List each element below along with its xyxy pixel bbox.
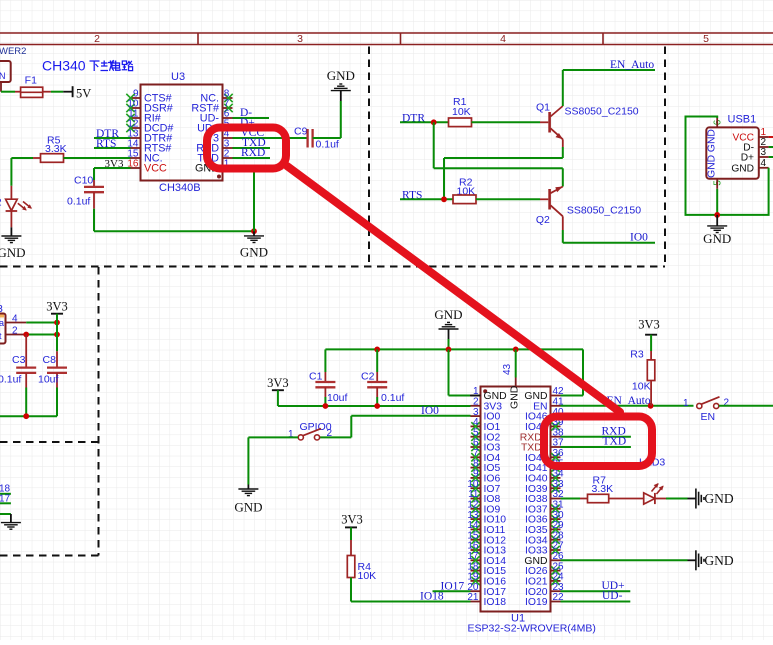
U1 pin 30 (IO36) xyxy=(551,518,561,520)
wire UD+ from U1.23 xyxy=(561,590,631,592)
wire TXD from U3.3 xyxy=(233,147,271,149)
svg-text:C3: C3 xyxy=(12,354,26,366)
svg-text:3V3: 3V3 xyxy=(341,513,363,527)
svg-text:GND: GND xyxy=(509,385,521,409)
annotation: red rounded box over U3 TXD/RXD pins xyxy=(207,128,286,169)
wire bus to U1 pin42 xyxy=(582,349,584,395)
svg-text:C9: C9 xyxy=(294,126,308,138)
U1 pin 11 (IO8) xyxy=(471,498,481,500)
USB1 pin 2 (D-) xyxy=(759,146,769,148)
svg-text:5: 5 xyxy=(703,33,709,45)
svg-text:4: 4 xyxy=(500,33,506,45)
ground above C9 xyxy=(340,91,342,101)
svg-text:3.3K: 3.3K xyxy=(592,483,614,495)
U1 pin 42 (GND) xyxy=(551,395,561,397)
U1 pin 5 (IO2) xyxy=(471,436,481,438)
wire UD- from U1.22 xyxy=(561,601,631,603)
svg-text:EN_Auto: EN_Auto xyxy=(610,59,654,71)
U1 pin 19 (IO16) xyxy=(471,580,481,582)
resistor R4 10K xyxy=(350,540,352,556)
wire RTS node xyxy=(400,198,453,200)
svg-text:2: 2 xyxy=(327,428,333,439)
power port 3V3 (left of C1) xyxy=(272,389,284,391)
svg-text:0.1uf: 0.1uf xyxy=(381,392,404,404)
wire xyxy=(51,91,63,93)
U1 pin 28 (IO34) xyxy=(551,539,561,541)
svg-text:5V: 5V xyxy=(76,86,91,100)
svg-text:UD-: UD- xyxy=(602,590,623,602)
junctions xyxy=(23,332,29,338)
annotation: red connecting line xyxy=(287,166,620,412)
svg-text:F1: F1 xyxy=(25,74,37,86)
U1 pin 39 (IO45) xyxy=(551,425,561,427)
U1 pin 6 (IO3) xyxy=(471,446,481,448)
wire EN to edge xyxy=(719,405,773,407)
wire C9 to GND xyxy=(313,137,341,139)
U1 pin 33 (IO39) xyxy=(551,487,561,489)
svg-text:a: a xyxy=(0,318,4,328)
svg-text:C8: C8 xyxy=(43,354,57,366)
U3 pin 7 (RST#) xyxy=(223,107,233,109)
svg-text:2: 2 xyxy=(94,33,100,45)
U3 pin 2 (TXD) xyxy=(223,157,233,159)
junction R3 xyxy=(648,403,654,409)
U1 pin 25 (IO26) xyxy=(551,570,561,572)
wire RXD xyxy=(561,436,631,438)
wire RTS to U3.14 xyxy=(94,147,131,149)
U3 pin 5 (UD+) xyxy=(223,127,233,129)
U1 pin 12 (IO9) xyxy=(471,508,481,510)
svg-text:GND: GND xyxy=(0,245,25,260)
svg-text:GND: GND xyxy=(731,163,754,174)
U1 pin 8 (IO5) xyxy=(471,467,481,469)
U3 pin 9 (CTS#) xyxy=(131,97,141,99)
wire Q1 emitter cross-couple xyxy=(562,147,564,158)
wire GND bus xyxy=(325,348,583,350)
svg-text:U3: U3 xyxy=(171,71,185,83)
wire R5 to U3.15 xyxy=(63,157,130,159)
U1 pin 37 (TXD0) xyxy=(551,446,561,448)
U1 pin 3 (IO0) xyxy=(471,415,481,417)
U1 pin 1 (GND) xyxy=(471,395,481,397)
ground under GPIO0 xyxy=(247,485,249,490)
svg-text:CH340: CH340 xyxy=(42,58,86,74)
svg-text:GND: GND xyxy=(703,231,731,246)
svg-text:3V3: 3V3 xyxy=(638,318,660,332)
U3 pin 6 (UD-) xyxy=(223,117,233,119)
wire pin5 down xyxy=(716,189,718,215)
wire D- to edge xyxy=(769,146,773,148)
U3 pin 11 (RI#) xyxy=(131,117,141,119)
svg-text:1: 1 xyxy=(683,398,689,409)
ground in box xyxy=(1,522,21,524)
wire xyxy=(1,91,15,93)
U1 pin 40 (IO46) xyxy=(551,415,561,417)
U1 pin 14 (IO11) xyxy=(471,528,481,530)
wire USB GND loop xyxy=(717,168,768,215)
wire R5 left xyxy=(11,157,33,159)
U1 pin 29 (IO35) xyxy=(551,528,561,530)
wire bottom rail xyxy=(0,415,57,417)
U1 pin 38 (RXD0) xyxy=(551,436,561,438)
svg-text:3V3: 3V3 xyxy=(46,299,68,313)
U1 pin 34 (IO40) xyxy=(551,477,561,479)
wire RXD from U3.2 xyxy=(233,157,271,159)
wire bus to U1 pin1 xyxy=(448,349,450,395)
wire Q2 collector to IO0 xyxy=(562,230,564,243)
wire U1.26 to GND xyxy=(561,559,688,561)
svg-text:ESP32-S2-WROVER(4MB): ESP32-S2-WROVER(4MB) xyxy=(468,623,596,635)
svg-text:4: 4 xyxy=(761,158,767,169)
svg-text:0.1uf: 0.1uf xyxy=(67,196,90,208)
U1 pin 21 (IO18) xyxy=(471,601,481,603)
U1 pin 9 (IO6) xyxy=(471,477,481,479)
svg-text:21: 21 xyxy=(467,592,479,603)
U1 pin 2 (3V3) xyxy=(471,405,481,407)
wire IO17 to U1.20 xyxy=(433,590,471,592)
svg-text:Q1: Q1 xyxy=(536,102,550,114)
wire GND rail under U3 xyxy=(94,230,254,232)
wire pin6 loop xyxy=(686,117,718,215)
wire 3V3 rail to U1.2 xyxy=(278,405,471,407)
U1 pin 23 (IO20) xyxy=(551,590,561,592)
U1 pin 4 (IO1) xyxy=(471,425,481,427)
wire D- from U3.6 xyxy=(233,117,270,119)
ground right of LED3 xyxy=(688,498,696,500)
svg-text:N: N xyxy=(0,71,6,81)
resistor R3 10K xyxy=(650,351,652,360)
U1 pin 41 (EN) xyxy=(551,405,561,407)
U1 pin 35 (IO41) xyxy=(551,467,561,469)
ground right of U1.26 xyxy=(688,559,696,561)
wire D+ from U3.5 xyxy=(233,127,270,129)
power port 3V3 xyxy=(51,313,63,315)
wire IO0 to U1.3 xyxy=(351,415,470,417)
wire TXD xyxy=(561,446,631,448)
U3 pin 3 (RXD) xyxy=(223,147,233,149)
wire Q1 collector to EN_Auto xyxy=(562,70,564,106)
svg-text:GND: GND xyxy=(240,245,268,260)
U1 pin 24 (IO21) xyxy=(551,580,561,582)
svg-text:10uf: 10uf xyxy=(327,392,348,404)
junction RTS node xyxy=(441,196,447,202)
wire U3.4 to C9 xyxy=(233,137,308,139)
wire bus to U1 pin43 xyxy=(515,349,517,377)
wire DTR node to Q2 emitter xyxy=(433,122,435,168)
U3 pin 12 (DCD#) xyxy=(131,127,141,129)
U1 pin 13 (IO10) xyxy=(471,518,481,520)
wire DTR to U3.13 xyxy=(94,137,131,139)
ground under U3 xyxy=(251,228,257,234)
svg-text:VCC: VCC xyxy=(144,163,167,175)
wire R2 to Q2 base xyxy=(476,198,540,200)
svg-text:GND: GND xyxy=(434,307,462,322)
U1 pin 18 (IO15) xyxy=(471,570,481,572)
U1 pin 7 (IO4) xyxy=(471,456,481,458)
wire LED to GND xyxy=(666,498,688,500)
svg-text:GND: GND xyxy=(234,500,262,515)
ground under USB1 xyxy=(716,215,718,226)
svg-text:IO0: IO0 xyxy=(630,231,648,243)
U1 pin 15 (IO12) xyxy=(471,539,481,541)
svg-text:IO19: IO19 xyxy=(525,597,548,608)
U1 pin 43 (GND) top xyxy=(515,378,517,387)
U3 pin 15 (NC.) xyxy=(131,157,141,159)
junction DTR node xyxy=(431,119,437,125)
U1 pin 20 (IO17) xyxy=(471,590,481,592)
svg-text:10K: 10K xyxy=(358,570,377,582)
USB1 pin 1 (VCC) xyxy=(759,136,769,138)
svg-text:GND GND: GND GND xyxy=(707,129,718,178)
svg-text:Q2: Q2 xyxy=(536,214,550,226)
svg-text:USB1: USB1 xyxy=(728,114,757,126)
svg-text:C10: C10 xyxy=(74,175,93,187)
USB1 pin 3 (D+) xyxy=(759,156,769,158)
U1 pin 36 (IO42) xyxy=(551,456,561,458)
U3 pin 1 (GND) xyxy=(223,167,233,169)
svg-text:3: 3 xyxy=(761,147,767,158)
svg-text:43: 43 xyxy=(502,363,513,375)
IC U1 ESP32-S2-WROVER body xyxy=(481,387,551,612)
U3 pin 4 (V3) xyxy=(223,137,233,139)
svg-text:TXD: TXD xyxy=(603,436,627,448)
wire 3V3 down xyxy=(56,323,58,352)
U1 pin 17 (IO14) xyxy=(471,559,481,561)
U1 pin 32 (IO38) xyxy=(551,498,561,500)
U1 pin 10 (IO7) xyxy=(471,487,481,489)
wire DTR node xyxy=(400,121,449,123)
annotation: red rounded box over U1 RXD/TXD pins xyxy=(544,417,652,467)
wire VCC to edge xyxy=(769,136,773,138)
ground above ESP32 xyxy=(439,328,459,330)
svg-text:10K: 10K xyxy=(452,106,471,118)
U1 pin 27 (IO33) xyxy=(551,549,561,551)
svg-text:GND: GND xyxy=(704,553,733,568)
ground under LED xyxy=(10,227,12,236)
wire 3V3 to U3.16 xyxy=(94,167,131,169)
svg-text:CH340B: CH340B xyxy=(159,182,201,194)
wire GPIO0 to ground xyxy=(248,436,298,438)
U3 pin 14 (RTS#) xyxy=(131,147,141,149)
svg-text:3V3: 3V3 xyxy=(267,376,289,390)
svg-text:10uf: 10uf xyxy=(38,374,59,386)
wire D+ to edge xyxy=(769,156,773,158)
U3 pin 10 (DSR#) xyxy=(131,107,141,109)
wire C10 to GND rail xyxy=(93,209,95,232)
U3 pin 8 (NC.) xyxy=(223,97,233,99)
dashed box: bottom-left power section xyxy=(98,267,100,556)
U1 pin 16 (IO13) xyxy=(471,549,481,551)
wire R1 to Q1 base xyxy=(472,121,541,123)
wire to ground xyxy=(0,513,11,515)
svg-text:10K: 10K xyxy=(632,381,651,393)
U1 pin 31 (IO37) xyxy=(551,508,561,510)
wire EN_Auto row xyxy=(561,405,694,407)
wire R4 to U1.21 (IO18) xyxy=(350,578,352,602)
U1 pin 26 (GND) xyxy=(551,559,561,561)
dashed box: auto-download circuit xyxy=(0,266,665,268)
svg-text:0.1uf: 0.1uf xyxy=(0,374,21,386)
svg-text:GND: GND xyxy=(327,68,355,83)
svg-text:D+: D+ xyxy=(741,153,754,164)
power port 5V xyxy=(63,91,72,93)
U1 pin 22 (IO19) xyxy=(551,601,561,603)
svg-text:IO18: IO18 xyxy=(484,597,507,608)
svg-text:GND: GND xyxy=(704,491,733,506)
svg-text:3: 3 xyxy=(297,33,303,45)
svg-text:SS8050_C2150: SS8050_C2150 xyxy=(565,106,639,118)
wire U3.1 to ground rail xyxy=(223,167,255,169)
svg-text:EN: EN xyxy=(701,411,716,423)
svg-text:2: 2 xyxy=(724,398,730,409)
svg-text:R3: R3 xyxy=(630,349,644,361)
svg-text:SS8050_C2150: SS8050_C2150 xyxy=(567,204,641,216)
junction USB ground xyxy=(714,212,720,218)
U3 pin 16 (VCC) xyxy=(131,167,141,169)
svg-text:WER2: WER2 xyxy=(0,46,26,57)
USB1 pin 4 (GND) xyxy=(759,167,769,169)
U3 pin 13 (DTR#) xyxy=(131,137,141,139)
svg-text:0.1uf: 0.1uf xyxy=(316,139,339,151)
